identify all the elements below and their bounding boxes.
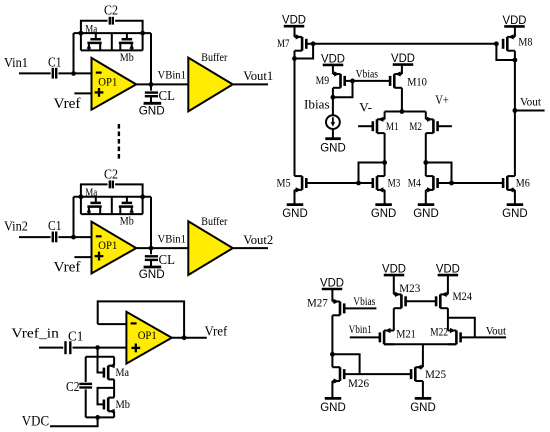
op-amp OP1 (block 1) (92, 58, 137, 110)
node M4 gate (449, 181, 454, 186)
wire M23 drain to M21 (393, 308, 395, 330)
node VDC junction (block 3) (95, 415, 100, 420)
node C2 left (block 1) (79, 31, 84, 36)
wire M1 drain to M3 (384, 133, 386, 176)
wire Vout2 (233, 247, 268, 249)
wire CL to ground (block 1) (150, 96, 152, 103)
transistor M7 (PMOS) (301, 37, 304, 51)
svg-text:Ma: Ma (85, 187, 97, 199)
wire Vin1 input (19, 72, 51, 74)
svg-text:Mb: Mb (120, 52, 134, 64)
wire M5 source to ground (294, 190, 296, 205)
node M3 tie (382, 160, 387, 165)
wire Vref input (block 1) (74, 92, 91, 94)
wire network bottom rail (block 3) (86, 416, 114, 418)
wire M24 drain to M22 gate loop (448, 318, 475, 338)
svg-text:C2: C2 (66, 379, 80, 394)
svg-text:Vout: Vout (520, 94, 542, 108)
ground below CL (block 2) (144, 266, 162, 269)
svg-text:C1: C1 (48, 54, 62, 69)
transistor M24 (PMOS) (439, 294, 442, 308)
capacitor C1 (block 1) (52, 68, 54, 79)
transistor M26 (NMOS) (339, 367, 342, 381)
wire C2 loop left (block 1) (81, 21, 108, 33)
svg-text:V-: V- (359, 100, 372, 114)
wire feedback left vertical (block 2) (73, 197, 75, 237)
op-amp OP1 plus sign (block 1) (95, 91, 104, 93)
svg-text:VDC: VDC (22, 414, 49, 430)
node tail (400, 109, 405, 114)
wire M27 drain to M26 (331, 315, 333, 367)
svg-text:Vref: Vref (205, 324, 228, 339)
wire pseudo-resistor top rail (block 1) (74, 32, 152, 34)
svg-text:M5: M5 (277, 175, 291, 189)
transistor M10 (PMOS) (393, 74, 396, 88)
wire M4 source to ground (425, 190, 427, 205)
op-amp OP1 (block 3) (126, 312, 171, 364)
wire C2 branch upper (block 3) (85, 357, 87, 382)
wire box middle vertical (block 2) (111, 197, 113, 214)
svg-text:M3: M3 (388, 175, 401, 189)
wire Vbin1 stub (350, 336, 380, 338)
capacitor CL (block 2) (145, 255, 158, 257)
op-amp OP1 minus sign (block 3) (131, 322, 137, 324)
wire box bottom rail (block 2) (81, 213, 143, 215)
transistor M4 (NMOS) (432, 176, 435, 190)
transistor M6 (NMOS) (506, 176, 509, 190)
svg-text:C1: C1 (68, 330, 83, 345)
wire feedback loop (block 3) (98, 301, 184, 337)
wire M21-M22 source rail (384, 343, 456, 345)
transistor M9 (PMOS) (339, 74, 342, 88)
wire VDD to M10 source (401, 65, 403, 74)
svg-text:C2: C2 (104, 166, 118, 181)
node feedback/output junction (block 3) (182, 335, 187, 340)
node M26 tie (330, 352, 335, 357)
wire box bottom rail (block 1) (81, 49, 143, 51)
transistor Mb (block 3) (107, 398, 110, 412)
wire VDD to M9 source (332, 65, 334, 74)
ground below M26 (325, 397, 342, 400)
capacitor CL (block 1) (145, 91, 158, 93)
svg-text:Mb: Mb (120, 216, 134, 228)
wire inverting input stub (block 3) (98, 323, 127, 325)
wire tail to M2 source (425, 112, 427, 120)
wire C1 to op-amp inverting input (block 2) (58, 236, 91, 238)
svg-text:Vin2: Vin2 (4, 220, 28, 235)
svg-text:GND: GND (320, 140, 346, 154)
transistor Mb (block 2) (126, 197, 128, 203)
wire M23 gate to M24 gate (406, 300, 437, 302)
wire M9 drain to current source (332, 88, 334, 116)
wire right rail M8 drain to M6 drain (514, 51, 516, 176)
svg-text:VDD: VDD (321, 51, 345, 65)
wire source rail to M25 (422, 344, 424, 367)
node M9 drain (331, 95, 336, 100)
transistor M21 (NMOS) (383, 331, 386, 345)
wire C2 loop right (block 1) (115, 21, 143, 33)
svg-text:M6: M6 (516, 176, 530, 190)
current source Ibias (326, 115, 340, 129)
wire Mb to bottom rail (block 3) (113, 411, 115, 417)
wire network top rail (block 3) (86, 356, 114, 358)
wire differential pair tail rail (385, 111, 426, 113)
wire VDD to M24 source (447, 275, 449, 294)
svg-text:M22: M22 (430, 325, 448, 339)
wire Vbias stub (block 5) (344, 307, 376, 309)
wire Ma gate tie (block 3) (98, 357, 104, 373)
ground below Ibias (325, 137, 341, 140)
wire OP1 output VBin1 (block 1) (136, 83, 188, 85)
wire M9 gate-drain tie (333, 81, 353, 97)
wire C1 to op-amp inverting input (block 1) (58, 72, 91, 74)
wire left rail M7 drain to M5 drain (294, 51, 296, 176)
wire Mb gate tie (block 3) (98, 388, 115, 405)
ground below CL (block 1) (144, 102, 162, 105)
svg-text:VBin1: VBin1 (158, 68, 187, 82)
wire C2 loop right (block 2) (115, 184, 143, 196)
svg-text:Vref: Vref (54, 260, 81, 276)
svg-text:GND: GND (502, 206, 528, 220)
wire box middle vertical (block 1) (111, 33, 113, 50)
wire feedback right vertical (block 2) (150, 197, 152, 248)
transistor M23 (PMOS) (400, 294, 403, 308)
svg-text:Vout1: Vout1 (243, 69, 273, 83)
wire M3 gate-drain tie (359, 163, 385, 184)
wire M6 source to ground (514, 190, 516, 205)
wire feedback right vertical (block 1) (150, 33, 152, 84)
capacitor C1 (block 3) (64, 341, 66, 354)
wire Vout1 (233, 83, 268, 85)
op-amp OP1 minus sign (block 2) (96, 235, 102, 237)
node M8 drain (513, 58, 518, 63)
wire box right vertical (block 1) (142, 33, 144, 50)
wire M2 drain to M4 (425, 133, 427, 176)
wire current source to ground (332, 129, 334, 139)
op-amp OP1 plus sign (block 2) (95, 255, 104, 257)
wire + input down to compensation network (block 3) (97, 348, 99, 357)
wire CL to ground (block 2) (150, 260, 152, 267)
ground below M25 (415, 397, 432, 400)
wire C1 to op-amp + input (block 3) (73, 347, 127, 349)
svg-text:OP1: OP1 (138, 330, 157, 342)
wire feedback left vertical (block 1) (73, 33, 75, 73)
node M3 gate (356, 181, 361, 186)
svg-text:M2: M2 (409, 119, 422, 133)
node feedback/input junction (block 2) (71, 235, 76, 240)
svg-text:M24: M24 (453, 289, 473, 303)
svg-text:M27: M27 (307, 295, 328, 309)
buffer amplifier (block 2) (188, 221, 233, 275)
svg-text:Vout2: Vout2 (243, 233, 273, 247)
node C2 right (block 2) (140, 194, 145, 199)
node M9 gate (350, 79, 355, 84)
svg-text:OP1: OP1 (98, 76, 117, 88)
wire box left vertical (block 1) (80, 33, 82, 50)
node C2 right (block 1) (140, 31, 145, 36)
svg-text:Buffer: Buffer (201, 52, 227, 64)
wire VDD to M23 source (393, 275, 395, 294)
op-amp OP1 minus sign (block 1) (96, 71, 102, 73)
svg-text:Vref: Vref (54, 96, 81, 112)
wire top rail M7 gate to M8 gate (313, 43, 496, 45)
svg-text:M1: M1 (386, 119, 399, 133)
transistor M27 (PMOS) (339, 302, 342, 316)
svg-text:M23: M23 (399, 281, 420, 295)
wire box right vertical (block 2) (142, 197, 144, 214)
capacitor C1 (block 2) (52, 232, 54, 243)
wire M25 source to ground (422, 381, 424, 398)
svg-text:V+: V+ (435, 93, 449, 107)
svg-text:Buffer: Buffer (201, 216, 227, 228)
transistor Ma (block 3) (107, 366, 110, 380)
wire to CL (block 1) (150, 84, 152, 90)
transistor M1 (NMOS) (376, 119, 379, 133)
wire Vout (block 4) (515, 110, 545, 112)
wire M22 gate / Vout (block 5) (461, 336, 507, 338)
wire Ma-Mb middle node (block 3) (113, 379, 115, 397)
ground below M6 (507, 203, 524, 206)
dashed continuation line (118, 124, 120, 162)
svg-text:M25: M25 (425, 367, 446, 381)
transistor M22 (NMOS) (455, 331, 458, 345)
wire M10 drain to tail rail (401, 88, 403, 112)
node feedback/input junction (block 1) (71, 71, 76, 76)
wire C2 loop left (block 2) (81, 184, 108, 196)
wire to CL (block 2) (150, 248, 152, 254)
op-amp OP1 (block 2) (92, 222, 137, 274)
transistor Ma (block 2) (95, 197, 97, 203)
transistor M2 (NMOS) (432, 119, 435, 133)
transistor Mb (block 1) (126, 33, 128, 39)
wire V+ input stub (438, 125, 452, 127)
svg-text:M21: M21 (396, 326, 416, 340)
svg-text:Mb: Mb (116, 397, 131, 411)
svg-text:VDD: VDD (391, 51, 415, 65)
svg-text:Ma: Ma (116, 365, 130, 379)
wire M26 source to ground (331, 381, 333, 398)
wire Vin2 input (19, 236, 51, 238)
ground below M3 (375, 203, 392, 206)
wire pseudo-resistor top rail (block 2) (74, 196, 152, 198)
wire box left vertical (block 2) (80, 197, 82, 214)
svg-text:C2: C2 (104, 3, 118, 18)
wire VDD to M27 source (331, 289, 333, 302)
wire M8 gate-drain tie (496, 44, 515, 60)
svg-text:VDD: VDD (282, 13, 306, 27)
ground below M4 (418, 203, 435, 206)
svg-text:GND: GND (282, 206, 308, 220)
svg-text:VDD: VDD (320, 276, 344, 290)
svg-text:Vbias: Vbias (356, 67, 379, 81)
wire M26 gate-drain tie (332, 354, 359, 374)
svg-text:Ma: Ma (85, 24, 97, 36)
wire M3 source to ground (384, 190, 386, 205)
svg-text:GND: GND (410, 400, 436, 414)
transistor M25 (NMOS) (414, 367, 417, 381)
wire VDD to M8 source (514, 26, 516, 37)
wire Ma drain branch (block 3) (113, 357, 115, 366)
svg-text:Ibias: Ibias (304, 97, 330, 112)
wire VDD to M7 source (294, 26, 296, 37)
node + input junction (block 3) (95, 345, 100, 350)
op-amp OP1 plus sign (block 3) (131, 347, 140, 349)
svg-text:Vref_in: Vref_in (11, 327, 59, 342)
svg-text:Vout: Vout (486, 324, 507, 338)
wire M7 gate to top rail (306, 43, 313, 45)
svg-text:GND: GND (320, 400, 346, 414)
svg-text:VDD: VDD (382, 262, 406, 276)
svg-text:GND: GND (371, 206, 397, 220)
svg-text:M8: M8 (518, 35, 532, 49)
buffer amplifier (block 1) (188, 58, 233, 112)
transistor M5 (NMOS) (301, 176, 304, 190)
transistor M3 (NMOS) (376, 176, 379, 190)
transistor M8 (PMOS) (506, 37, 509, 51)
node VBin1 (block 1) (149, 82, 154, 87)
wire M5 gate to M3 gate (306, 182, 373, 184)
node M7 drain (292, 56, 297, 61)
node VBin1 (block 2) (149, 246, 154, 251)
wire VDC connection (block 3) (50, 417, 98, 426)
svg-text:GND: GND (139, 103, 165, 117)
svg-text:GND: GND (139, 267, 165, 281)
wire OP1 output Vref (block 3) (172, 337, 207, 339)
svg-text:M26: M26 (348, 376, 369, 390)
svg-text:VDD: VDD (503, 13, 527, 27)
node M7 gate (311, 41, 316, 46)
wire OP1 output VBin1 (block 2) (136, 247, 188, 249)
wire M24 drain down (447, 308, 449, 330)
wire M4 gate-drain tie (426, 163, 452, 184)
svg-text:M10: M10 (407, 74, 427, 88)
wire M9 gate lead (345, 80, 353, 82)
wire tail to M1 source (384, 112, 386, 120)
svg-text:Vbias: Vbias (353, 294, 375, 308)
svg-text:OP1: OP1 (98, 240, 117, 252)
svg-text:C1: C1 (48, 218, 62, 233)
wire M4 gate to M6 gate (438, 182, 504, 184)
wire M26 gate to M25 gate (344, 373, 412, 375)
node Vout (block 4) (513, 108, 518, 113)
svg-text:Vin1: Vin1 (4, 56, 28, 71)
wire M7 gate-drain tie (295, 44, 314, 59)
node M4 tie (423, 160, 428, 165)
wire Vref input (block 2) (74, 256, 91, 258)
svg-text:M4: M4 (408, 175, 421, 189)
svg-text:M7: M7 (277, 36, 290, 50)
wire Vref_in input (39, 347, 63, 349)
transistor Ma (block 1) (95, 33, 97, 39)
svg-text:Vbin1: Vbin1 (349, 322, 372, 336)
node M8 gate (494, 41, 499, 46)
wire C2 branch lower (block 3) (85, 389, 87, 417)
wire V- input stub (358, 125, 373, 127)
capacitor C2 (block 2) (109, 181, 111, 189)
capacitor C2 (block 1) (109, 17, 111, 25)
capacitor C2 (block 3) (79, 383, 92, 385)
node C2 left (block 2) (79, 194, 84, 199)
ground below M5 (287, 203, 304, 206)
svg-text:VDD: VDD (436, 262, 460, 276)
svg-text:GND: GND (413, 206, 439, 220)
svg-text:VBin1: VBin1 (158, 231, 187, 245)
svg-text:M9: M9 (316, 73, 330, 87)
wire Vbias M9 to M10 (353, 80, 391, 82)
